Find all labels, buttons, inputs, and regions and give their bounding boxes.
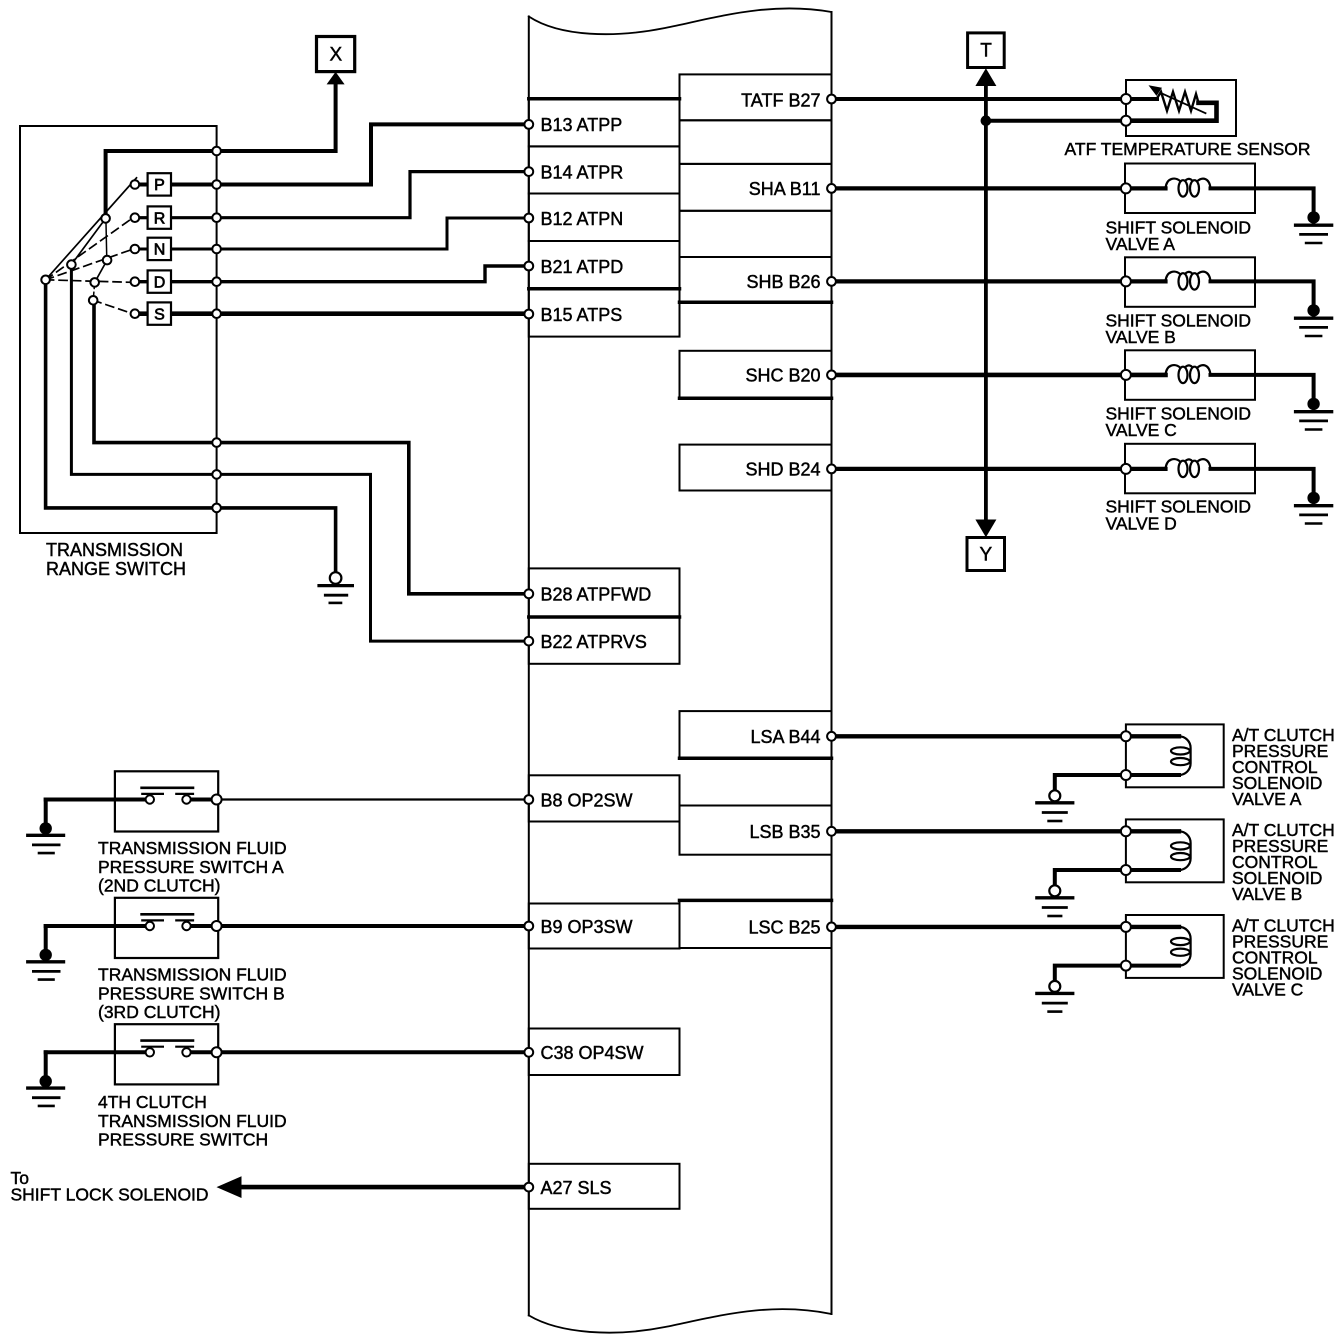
wire SHB B26 to valve B — [832, 279, 1166, 283]
ground (switch A) — [40, 822, 52, 834]
svg-text:N: N — [154, 242, 166, 259]
shift solenoid valve D box — [1125, 444, 1255, 494]
switch B fixed ticks — [142, 919, 163, 921]
node contact d — [103, 256, 112, 265]
svg-text:Y: Y — [979, 545, 992, 566]
clutch pressure solenoid valve C box — [1126, 915, 1224, 978]
pin box LSC — [680, 900, 832, 948]
thermistor zigzag element — [1131, 97, 1157, 101]
svg-text:C38 OP4SW: C38 OP4SW — [541, 1043, 644, 1063]
shift solenoid valve A box — [1125, 164, 1255, 214]
valve D coil — [1166, 459, 1211, 469]
pin box B8 — [529, 775, 680, 821]
svg-text:TATF B27: TATF B27 — [741, 90, 820, 110]
svg-text:B14 ATPR: B14 ATPR — [541, 162, 624, 182]
svg-text:B21 ATPD: B21 ATPD — [541, 257, 624, 277]
wire P-row: contact stub — [139, 183, 148, 187]
wire D-row to B21 jog — [171, 266, 529, 282]
svg-text:VALVE C: VALVE C — [1232, 980, 1303, 1000]
wire LSC B25 to clutch valve C — [832, 925, 1180, 929]
switch arm dashed: pole to N — [46, 250, 131, 280]
svg-text:SHB B26: SHB B26 — [746, 272, 820, 292]
pin box SHA — [680, 164, 832, 211]
switch C38 box edge pin — [212, 1047, 222, 1057]
node contact e — [90, 278, 99, 287]
svg-text:VALVE C: VALVE C — [1106, 420, 1177, 440]
clutch valve C bottom pin — [1121, 961, 1131, 971]
ECU band left edge — [528, 17, 530, 1316]
svg-text:(2ND CLUTCH): (2ND CLUTCH) — [98, 876, 221, 896]
svg-text:B9 OP3SW: B9 OP3SW — [541, 917, 633, 937]
ground (clutch valve B) — [1049, 885, 1060, 896]
letter box S — [148, 302, 171, 324]
wire clutch valve C to ground — [1055, 966, 1179, 982]
svg-text:SHA B11: SHA B11 — [749, 179, 821, 199]
svg-text:B8 OP2SW: B8 OP2SW — [541, 790, 633, 810]
wire N-row to B12 jog — [171, 218, 529, 249]
switch arm dashed: e to f — [93, 282, 95, 300]
wire valve D to ground — [1211, 469, 1314, 495]
arrow to shift lock solenoid — [217, 1176, 242, 1198]
shift solenoid valve B box — [1125, 257, 1255, 307]
wire LSA B44 to clutch valve A — [832, 734, 1180, 738]
switch C38 fixed ticks — [142, 1046, 163, 1048]
clutch valve A bottom pin — [1121, 770, 1131, 780]
ground (switch B) — [40, 949, 52, 961]
clutch valve B top pin — [1121, 826, 1131, 836]
clutch valve B bottom pin — [1121, 865, 1131, 875]
clutch pressure solenoid valve A box — [1126, 724, 1224, 787]
pressure switch A box — [115, 771, 218, 831]
wire S-row: contact stub — [139, 311, 148, 316]
valve A coil — [1166, 179, 1211, 189]
svg-text:B15 ATPS: B15 ATPS — [541, 305, 623, 325]
wire R-row to B14 jog — [171, 172, 529, 218]
connector T box — [968, 33, 1005, 68]
letter box R — [148, 206, 171, 228]
pressure switch C38 box — [115, 1024, 218, 1084]
svg-text:LSB B35: LSB B35 — [749, 822, 820, 842]
svg-text:A27 SLS: A27 SLS — [541, 1178, 612, 1198]
wire X branch: contact c up and over to X arrow — [106, 84, 336, 218]
sensor pin 2 — [1121, 116, 1131, 126]
letters P R N D S — [154, 177, 166, 323]
ground (valve A) — [1307, 211, 1319, 223]
svg-text:LSC B25: LSC B25 — [748, 918, 820, 938]
pin box B21 — [529, 241, 680, 289]
clutch valve C coil (vertical) — [1179, 927, 1191, 966]
switch C38 blade bar — [142, 1039, 193, 1042]
labels clutch pressure control solenoid valves — [1232, 725, 1335, 1000]
wire N-row: contact stub — [139, 248, 148, 251]
ECU band top break (wavy) — [529, 8, 832, 34]
wire TATF B27 to sensor — [832, 97, 1127, 101]
ground (valve B) — [1307, 304, 1319, 316]
pin box SHB — [680, 257, 832, 302]
ground (range switch) — [330, 572, 342, 584]
letter box P — [148, 173, 171, 195]
switch B box edge pin — [212, 921, 222, 931]
junction circles on range switch box edge — [212, 147, 221, 156]
contact circle D — [131, 277, 140, 286]
node contact f — [89, 296, 98, 305]
pin box unlabelled 1 — [680, 120, 832, 164]
wire LSB B35 to clutch valve B — [832, 829, 1180, 833]
thermistor arrow head — [1149, 85, 1163, 96]
pin circles on ECU band right — [827, 95, 836, 932]
svg-text:VALVE A: VALVE A — [1106, 234, 1176, 254]
clutch valve C top pin — [1121, 922, 1131, 932]
wire R-row: contact stub — [139, 216, 148, 219]
ground (switch C38) — [40, 1075, 52, 1087]
arrow into Y — [975, 520, 996, 538]
switch A box edge pin — [212, 795, 222, 805]
switch arm solid: pole b to contact c — [71, 218, 105, 264]
pin box A27 — [529, 1164, 680, 1209]
valve C coil — [1166, 365, 1211, 375]
clutch pressure solenoid valve B box — [1126, 819, 1224, 882]
wire ground to pressure switch A — [46, 798, 146, 802]
svg-text:S: S — [154, 306, 165, 323]
svg-text:TRANSMISSION: TRANSMISSION — [46, 540, 183, 560]
letter box N — [148, 238, 171, 260]
ground (valve C) — [1307, 398, 1319, 410]
pin box SHD — [680, 445, 832, 491]
valve B pin — [1121, 276, 1131, 286]
svg-text:SHC B20: SHC B20 — [745, 366, 820, 386]
wire pressure switch C38 contact 2 to box edge — [190, 1050, 217, 1054]
wire switch common to ground — [46, 280, 336, 572]
ATF temperature sensor box — [1126, 80, 1236, 136]
wire sensor return to T-Y line — [986, 119, 1126, 123]
wire pressure switch C38 to C38 pin — [217, 1050, 529, 1054]
switch A contact circles — [146, 795, 154, 803]
pin box C38 — [529, 1029, 680, 1076]
pin labels left column — [541, 115, 652, 1198]
svg-text:VALVE B: VALVE B — [1106, 327, 1176, 347]
svg-text:PRESSURE SWITCH: PRESSURE SWITCH — [98, 1130, 268, 1150]
switch A fixed ticks — [142, 793, 163, 795]
connector Y box — [967, 538, 1005, 571]
valve C pin — [1121, 370, 1131, 380]
valve D pin — [1121, 464, 1131, 474]
svg-text:B22 ATPRVS: B22 ATPRVS — [541, 632, 647, 652]
contact circle N — [131, 245, 140, 254]
wire D-row: contact stub — [139, 280, 148, 283]
svg-text:X: X — [329, 45, 342, 66]
ECU band right edge — [831, 12, 833, 1314]
wire down to ground (switch A) — [44, 800, 48, 824]
switch B contact circles — [146, 922, 154, 930]
svg-text:T: T — [980, 41, 992, 62]
valve A pin — [1121, 183, 1131, 193]
contact circle S — [131, 309, 140, 318]
svg-text:SHIFT LOCK SOLENOID: SHIFT LOCK SOLENOID — [11, 1185, 209, 1205]
wire down to ground (switch B) — [44, 926, 48, 950]
pin box B13 — [529, 99, 680, 147]
pin box SHC — [680, 351, 832, 399]
switch A blade bar — [142, 786, 193, 789]
switch arm solid: e to d — [95, 260, 107, 282]
labels pressure switches — [98, 838, 287, 1150]
pin box B12 — [529, 194, 680, 242]
pressure switch B box — [115, 898, 218, 958]
wire valve A to ground — [1211, 188, 1314, 214]
contact circle R — [131, 213, 140, 222]
transmission range switch box — [20, 126, 217, 533]
svg-text:SHD B24: SHD B24 — [745, 460, 820, 480]
contact circle P — [131, 180, 140, 189]
ground (clutch valve A) — [1049, 790, 1060, 801]
pin box unlabelled 2 — [680, 211, 832, 257]
svg-text:B12 ATPN: B12 ATPN — [541, 209, 624, 229]
switch arm solid: pole to P — [46, 178, 137, 280]
pin box TATF — [680, 74, 832, 120]
wire A27 SLS to shift lock solenoid — [240, 1185, 529, 1190]
wire clutch valve B to ground — [1055, 870, 1179, 886]
ground (clutch valve C) — [1049, 981, 1060, 992]
pin box B15 — [529, 289, 680, 337]
junction dot on T-Y line — [981, 115, 992, 126]
shift solenoid valve C box — [1125, 350, 1255, 400]
switch C38 contact circles — [146, 1048, 154, 1056]
svg-text:B13 ATPP: B13 ATPP — [541, 115, 623, 135]
wire down to ground (switch C38) — [44, 1052, 48, 1076]
svg-text:TRANSMISSION FLUID: TRANSMISSION FLUID — [98, 965, 287, 985]
wire pressure switch B contact 2 to box edge — [190, 924, 217, 928]
node contact c — [101, 214, 110, 223]
wire P-row to B13 jog — [171, 124, 529, 184]
wire pressure switch B to B9 pin — [217, 924, 529, 928]
switch arm dashed: pole to D — [46, 280, 131, 283]
svg-text:TRANSMISSION FLUID: TRANSMISSION FLUID — [98, 1111, 287, 1131]
pin circles on ECU band left — [524, 120, 533, 1192]
node pole b — [67, 260, 76, 269]
svg-text:VALVE B: VALVE B — [1232, 884, 1302, 904]
svg-text:TRANSMISSION FLUID: TRANSMISSION FLUID — [98, 838, 287, 858]
pin labels right column — [741, 90, 820, 937]
svg-text:VALVE D: VALVE D — [1106, 514, 1177, 534]
wire ground to pressure switch B — [46, 924, 146, 928]
svg-text:(3RD CLUTCH): (3RD CLUTCH) — [98, 1002, 221, 1022]
wire SHD B24 to valve D — [832, 467, 1166, 471]
wire T to Y vertical — [984, 86, 988, 520]
wire pressure switch A contact 2 to box edge — [190, 798, 217, 802]
pin box B9 — [529, 904, 680, 949]
pin box LSB — [680, 806, 832, 855]
svg-text:PRESSURE SWITCH A: PRESSURE SWITCH A — [98, 857, 284, 877]
clutch valve A coil (vertical) — [1179, 736, 1191, 775]
switch arm link c-d — [105, 218, 108, 260]
wire ATPFWD: from contact f down, right, down to B28 — [94, 300, 529, 594]
wire ground to pressure switch C38 — [46, 1050, 146, 1054]
wire pressure switch A to B8 pin (thin) — [217, 798, 529, 800]
pin box B14 — [529, 146, 680, 193]
svg-text:R: R — [154, 210, 166, 227]
svg-text:LSA B44: LSA B44 — [750, 727, 820, 747]
switch arm dashed: pole to R — [46, 220, 131, 280]
clutch valve A top pin — [1121, 731, 1131, 741]
wire SHA B11 to valve A — [832, 186, 1166, 190]
wire SHC B20 to valve C — [832, 373, 1166, 378]
wire clutch valve A to ground — [1055, 775, 1179, 791]
thermistor arrow line — [1161, 93, 1206, 113]
sensor pin 1 — [1121, 94, 1131, 104]
switch arm dashed: f to S — [93, 300, 130, 313]
pin box B28 — [529, 568, 680, 616]
svg-text:P: P — [154, 177, 165, 194]
valve B coil — [1166, 272, 1211, 282]
arrow into X — [327, 72, 345, 85]
ground (valve D) — [1307, 492, 1319, 504]
svg-text:D: D — [154, 274, 166, 291]
wire ATPRVS: from pole b down, right, down to B22 — [71, 265, 528, 641]
pin box B22 — [529, 618, 680, 664]
wire valve C to ground — [1211, 375, 1314, 401]
svg-text:RANGE SWITCH: RANGE SWITCH — [46, 559, 186, 579]
switch B blade bar — [142, 913, 193, 916]
svg-text:4TH CLUTCH: 4TH CLUTCH — [98, 1092, 207, 1112]
ECU band bottom break (wavy) — [529, 1309, 832, 1333]
letter box D — [148, 270, 171, 292]
wire valve B to ground — [1211, 281, 1314, 307]
node pole a — [41, 276, 50, 285]
svg-text:PRESSURE SWITCH B: PRESSURE SWITCH B — [98, 984, 285, 1004]
pin box LSA — [680, 711, 832, 758]
connector X box — [317, 37, 355, 72]
wire S-row straight to B15 — [171, 311, 529, 316]
svg-text:VALVE A: VALVE A — [1232, 789, 1302, 809]
arrow into T — [975, 68, 996, 86]
svg-text:B28 ATPFWD: B28 ATPFWD — [541, 585, 652, 605]
svg-text:ATF TEMPERATURE SENSOR: ATF TEMPERATURE SENSOR — [1065, 139, 1311, 159]
clutch valve B coil (vertical) — [1179, 831, 1191, 870]
